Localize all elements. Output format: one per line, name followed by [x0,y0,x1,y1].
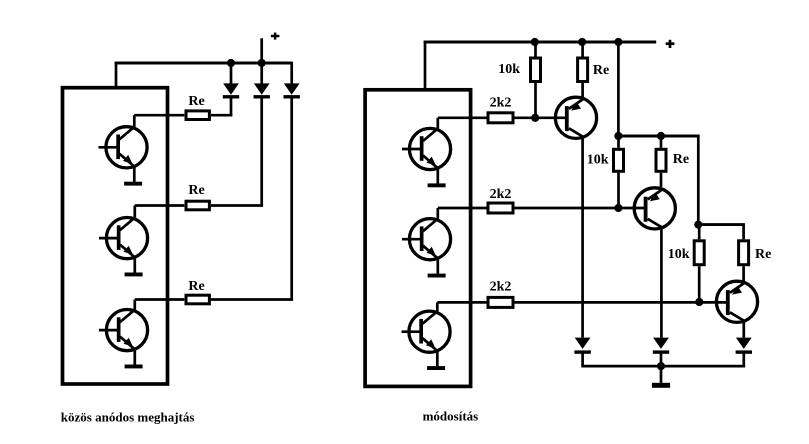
svg-text:közös anódos meghajtás: közös anódos meghajtás [61,409,195,424]
svg-text:10k: 10k [498,62,520,77]
svg-text:Re: Re [673,152,689,167]
svg-text:2k2: 2k2 [490,279,512,294]
svg-text:2k2: 2k2 [490,187,512,202]
svg-text:Re: Re [188,94,204,109]
svg-text:10k: 10k [587,153,609,168]
svg-text:2k2: 2k2 [490,95,512,110]
svg-text:Re: Re [188,183,204,198]
svg-text:módosítás: módosítás [423,408,479,423]
svg-text:Re: Re [188,279,204,294]
svg-text:10k: 10k [668,247,690,262]
svg-text:Re: Re [755,247,771,262]
svg-text:Re: Re [593,63,609,78]
